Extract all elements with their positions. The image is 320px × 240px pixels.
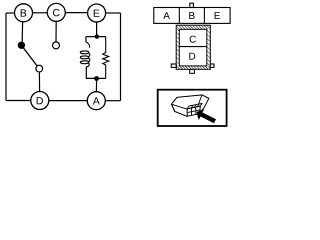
switch open contact circle (C side)	[53, 42, 60, 49]
terminal C	[47, 3, 65, 21]
switch pivot circle	[36, 65, 43, 72]
connector bottom tab	[190, 69, 195, 73]
cavity label D	[189, 53, 195, 60]
terminal E	[88, 4, 106, 22]
wire top B left	[6, 12, 14, 14]
wire top E to corner	[106, 12, 121, 14]
wire B down to switch contact	[21, 22, 23, 42]
switch contact dot (B side)	[18, 42, 25, 49]
terminal A	[87, 92, 105, 110]
wire coil branch top	[85, 37, 87, 43]
wire bottom A right	[105, 100, 120, 102]
wire network top	[86, 36, 106, 38]
wire E down to node	[96, 22, 98, 37]
resistor R1	[103, 37, 109, 79]
connector right tab	[210, 64, 214, 67]
pin label B	[189, 12, 194, 19]
switch arm	[21, 45, 37, 66]
relay body	[171, 95, 209, 117]
wire top B to C	[33, 12, 48, 14]
relay terminal block	[187, 103, 202, 116]
wire bottom A to D	[49, 100, 87, 102]
coil L1	[80, 42, 90, 67]
terminal B	[15, 4, 33, 22]
junction dot bottom	[94, 76, 99, 81]
cavity divider C|D	[179, 46, 207, 48]
wire coil branch bottom	[85, 67, 87, 79]
wire left edge	[5, 13, 7, 101]
connector row outline	[154, 8, 230, 24]
cavity label C	[190, 36, 196, 43]
pin label E	[215, 12, 220, 19]
connector left tab	[171, 64, 176, 67]
connector divider B|E	[203, 8, 205, 24]
wire bottom D left	[6, 100, 31, 102]
wire network bottom	[86, 77, 106, 79]
connector body hatched wall	[176, 25, 210, 69]
arrow pointer	[197, 109, 217, 123]
wire right edge	[120, 13, 122, 101]
connector top tab	[190, 3, 194, 7]
relay inset box	[158, 90, 227, 126]
terminal D	[31, 92, 49, 110]
pin label A	[163, 12, 170, 19]
wire C down to open contact	[55, 21, 57, 41]
junction dot top	[95, 34, 99, 38]
wire pivot to D	[38, 72, 40, 91]
connector divider A|B	[178, 8, 180, 24]
wire node to A	[95, 78, 97, 91]
wire top C to E	[65, 12, 87, 14]
